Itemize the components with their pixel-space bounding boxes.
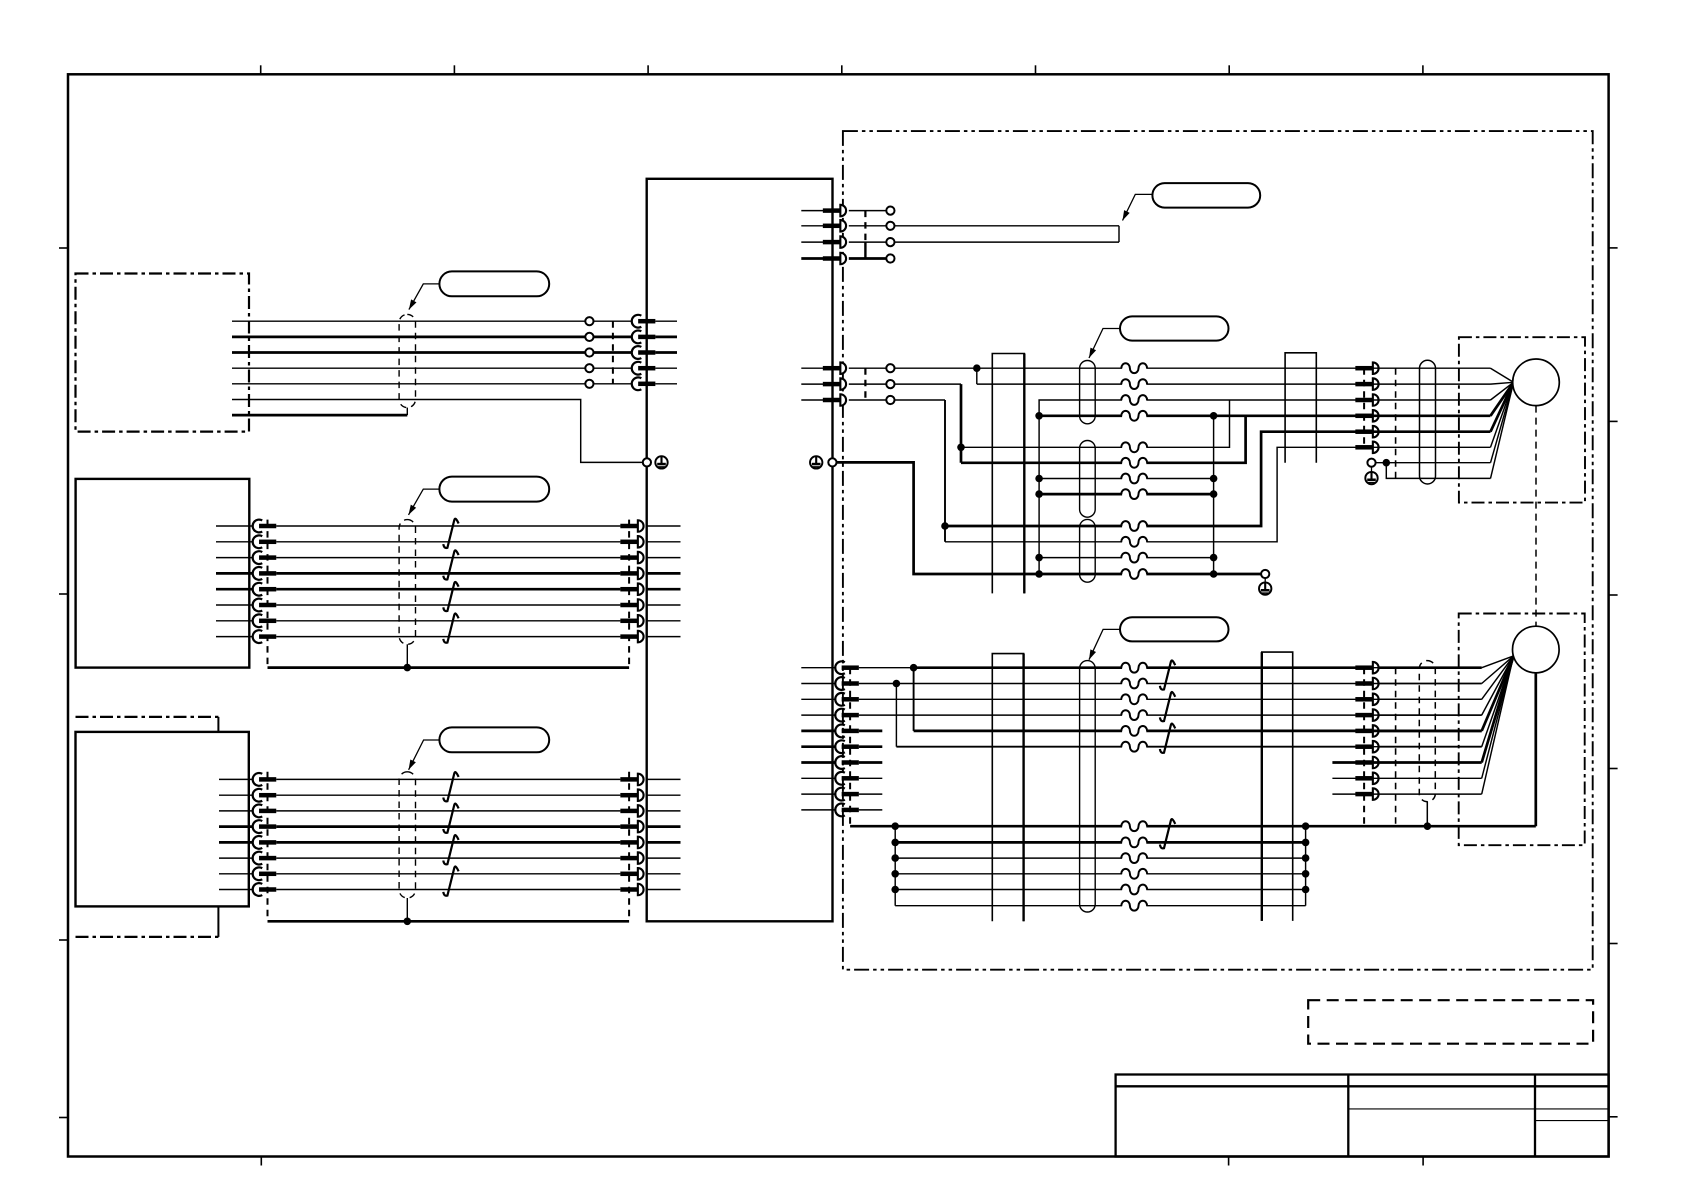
band2 stub wire 10: [859, 809, 883, 811]
motor2 bank shield dashes: [1363, 668, 1365, 827]
band2 left pin 7 lead: [801, 761, 836, 764]
rung 557: [1039, 557, 1214, 559]
twisted pair tick: [1160, 724, 1175, 753]
twisted pair tick: [443, 582, 458, 611]
bundle cable shield oval: [399, 520, 415, 645]
middle group wire 2 connector pin: [823, 378, 846, 390]
bundle wire 5 connector left: [253, 583, 277, 596]
motor2 connector pin 2: [1355, 678, 1378, 690]
top group wire 2 terminal circle: [886, 222, 894, 230]
vertical drop x945: [941, 400, 949, 542]
feedthrough A2: [992, 654, 1023, 922]
ferrite choke: [1121, 710, 1147, 720]
bundle1 wire 4 terminal circle: [585, 364, 593, 372]
ferrite choke: [1121, 363, 1147, 373]
bundle wire 7 connector right: [620, 615, 643, 627]
cabinet enclosure box (dash-dot): [843, 131, 1593, 970]
motor1 connector pin 4: [1355, 410, 1378, 422]
bundle1 wire 4 connector pin: [632, 362, 656, 375]
bundle shield dashed line right: [628, 520, 630, 668]
ferrite choke: [1121, 521, 1147, 531]
band2 left pin 1 lead: [801, 667, 836, 669]
motor2 lead 8: [1373, 656, 1514, 778]
band2 left connector pin 1: [835, 661, 859, 674]
motor2 lead 4: [1373, 656, 1514, 715]
bundle wire 5 connector right: [620, 837, 643, 849]
bundle1 wire 3 terminal circle: [585, 348, 593, 356]
callout 5 leader arrow: [1089, 329, 1120, 359]
motor2 lead 9: [1373, 656, 1514, 794]
callout 3 leader arrow: [409, 740, 440, 770]
motor1 PE ground symbol: [1365, 467, 1377, 484]
band2 left pin 5 lead: [801, 730, 836, 733]
ferrite choke: [1121, 569, 1147, 579]
motor1 lead 7: [1491, 382, 1514, 462]
motor1 bank shield dashes: [1363, 368, 1365, 447]
ferrite choke: [1121, 869, 1147, 879]
bundle1 wire 1 terminal circle: [585, 317, 593, 325]
band2 wire6 run: [896, 746, 1481, 748]
bundle wire 2 connector right: [620, 536, 643, 548]
bundle1 wire 3: [232, 351, 677, 354]
motor2 connector pin 6: [1355, 741, 1378, 753]
motor2 connector pin 3: [1355, 694, 1378, 706]
bundle1 wire 5 connector pin: [632, 377, 656, 390]
bundle shield dashed line left: [267, 772, 269, 922]
band2 rung 842 heavy: [895, 841, 1305, 844]
middle group dashed link: [864, 368, 866, 400]
band2 wire1 drop: [913, 668, 915, 731]
ferrite choke: [1121, 537, 1147, 547]
twisted pair tick: [443, 772, 458, 801]
motor2 connector pin 8: [1355, 773, 1378, 785]
bundle wire 3 connector right: [620, 552, 643, 564]
bundle shield drain stub: [404, 898, 412, 925]
band2 wire2 drop: [895, 684, 897, 747]
motor2 bank shield dashes outer: [1395, 668, 1397, 827]
bundle wire 1 connector left: [253, 520, 277, 533]
motor2 pin 8 stub: [1332, 777, 1355, 779]
top group wire 2: [801, 225, 886, 227]
bundle wire 4 connector left: [253, 567, 277, 580]
bundle1 wire 2 connector pin: [632, 331, 656, 344]
wire L1 phase run: [895, 364, 1356, 372]
callout balloon 4: [1152, 183, 1260, 208]
bundle1 wire 6 (to PE): [232, 400, 643, 463]
twisted pair tick: [1160, 819, 1175, 848]
motor1 lead 8: [1491, 382, 1514, 478]
vertical drop x961 (heavy): [957, 384, 965, 463]
bundle wire 7: [216, 620, 681, 622]
top group wire 3 terminal circle: [886, 238, 894, 246]
bundle1 wire 1 connector pin: [632, 315, 656, 328]
motor1 PE wire: [1376, 459, 1491, 467]
motor2 connector pin 9: [1355, 788, 1378, 800]
twisted pair tick: [443, 835, 458, 864]
ferrite choke: [1121, 726, 1147, 736]
motor1 lead 4: [1373, 382, 1514, 416]
band2 rung 858: [895, 857, 1305, 859]
wire L4p staircase: [961, 400, 1230, 447]
bundle wire 8: [216, 636, 681, 638]
motor2 connector pin 1: [1355, 662, 1378, 674]
twisted pair tick: [1160, 692, 1175, 721]
top group cable end link: [1118, 226, 1120, 242]
callout 1 leader arrow: [409, 284, 440, 310]
PE line end circle: [1261, 570, 1269, 578]
motor2 connector pin 7: [1355, 757, 1378, 769]
bundle wire 4 connector right: [620, 821, 643, 833]
callout balloon 1: [439, 271, 549, 296]
bundle wire 5: [216, 588, 681, 591]
motor1 bank shield dashes outer: [1395, 368, 1397, 478]
bundle wire 6: [216, 604, 681, 606]
wire L1-L2 link: [976, 368, 978, 384]
bundle1 PE terminal circle: [643, 458, 651, 466]
central terminal block: [647, 179, 833, 922]
motor1 connector pin 1: [1355, 362, 1378, 374]
bundle wire 7 connector left: [253, 867, 277, 880]
bus vertical Vb: [1210, 416, 1218, 578]
ferrite choke: [1121, 663, 1147, 673]
callout 2 leader arrow: [409, 489, 440, 515]
block right PE ground symbol: [810, 456, 822, 468]
middle group wire 2 terminal circle: [886, 380, 894, 388]
bundle wire 8 connector left: [253, 883, 277, 896]
motor1 PE drop wire: [1386, 463, 1490, 479]
band2 left connector pin 10: [835, 804, 859, 817]
callout balloon 3: [439, 727, 549, 752]
motor2 lead 1: [1373, 656, 1514, 668]
ferrite choke: [1121, 838, 1147, 848]
motor2 lead 5: [1373, 656, 1514, 731]
band2 rung bottom: [895, 905, 1305, 907]
band2 wire5 run: [914, 730, 1482, 733]
band2 left pin 10 lead: [801, 809, 836, 811]
top group wire 1 terminal circle: [886, 207, 894, 215]
wire L5p staircase to w5: [945, 432, 1356, 526]
bundle wire 2: [219, 794, 681, 796]
wire L6 staircase to w6: [945, 447, 1356, 542]
middle group wire 1 terminal circle: [886, 364, 894, 372]
band2 left connector pin 6: [835, 740, 859, 753]
bundle wire 6: [219, 857, 681, 859]
bundle1 shield drain wire 7: [232, 408, 407, 416]
motor2 connector pin 4: [1355, 709, 1378, 721]
source unit box 2: [76, 479, 250, 668]
bundle wire 1 connector left: [253, 773, 277, 786]
motor M2 box (dash-dot): [1459, 614, 1585, 846]
band2 wire3 run: [859, 698, 1482, 700]
callout balloon 5: [1120, 316, 1229, 340]
bundle wire 5: [219, 841, 681, 844]
twisted pair tick: [443, 867, 458, 896]
top group wire 1 connector pin: [823, 205, 846, 217]
motor1 PE circle: [1367, 459, 1375, 467]
bundle wire 4: [216, 572, 681, 575]
ferrite choke: [1121, 901, 1147, 911]
twisted pair tick: [443, 614, 458, 643]
block right PE terminal circle: [828, 458, 836, 466]
bundle1 PE ground symbol: [655, 456, 667, 468]
bundle wire 6 connector right: [620, 852, 643, 864]
PE line ground symbol: [1259, 578, 1271, 595]
wire L5 heavy staircase: [961, 416, 1246, 463]
motor1 lead 1: [1373, 368, 1514, 382]
ferrite choke: [1121, 885, 1147, 895]
bundle wire 8 connector right: [620, 884, 643, 896]
ferrite choke: [1121, 742, 1147, 752]
band2 left shield dashes: [849, 668, 851, 827]
ferrite choke: [1121, 694, 1147, 704]
bundle cable shield oval: [399, 772, 415, 898]
wire L4 heavy run: [1035, 412, 1355, 420]
feedthrough B2: [1262, 652, 1293, 921]
middle group wire 3: [801, 399, 886, 401]
source box 3 dash-dot extension top: [76, 717, 219, 732]
bundle1 cable shield oval: [399, 314, 415, 407]
band2 stub wire 9: [859, 793, 883, 795]
motor1 lead 6: [1373, 382, 1514, 447]
wire L3b run: [1039, 400, 1355, 416]
bundle wire 2 connector right: [620, 789, 643, 801]
bundle wire 7 connector right: [620, 868, 643, 880]
bundle wire 4: [219, 825, 681, 828]
feedthrough B1: [1285, 353, 1316, 463]
band2 rung 889: [895, 889, 1305, 891]
bundle1 wire 2: [232, 336, 677, 339]
bundle wire 2 connector left: [253, 535, 277, 548]
top group wire 3: [801, 241, 886, 243]
bundle wire 2 connector left: [253, 789, 277, 802]
bundle wire 8 connector left: [253, 630, 277, 643]
band2 rung 873: [895, 873, 1305, 875]
bundle1 wire 3 connector pin: [632, 346, 656, 359]
bundle1 dashed shield link: [612, 321, 614, 384]
motor M1 circle: [1513, 359, 1560, 406]
motor M1 box (dash-dot): [1459, 337, 1585, 502]
band2 wire4 run: [859, 714, 1482, 716]
top group wire 4: [801, 257, 886, 260]
bundle shield bus: [268, 920, 630, 923]
motor1 connector pin 5: [1355, 426, 1378, 438]
source unit box 1 (dash-dot): [76, 274, 250, 432]
band2 left connector pin 9: [835, 788, 859, 801]
callout 4 leader arrow: [1123, 194, 1153, 220]
bundle shield drain stub: [404, 644, 412, 671]
band2 left connector pin 4: [835, 709, 859, 722]
ferrite choke: [1121, 474, 1147, 484]
band2 left connector pin 5: [835, 725, 859, 738]
motor2 boot shield stub: [1426, 802, 1428, 827]
bus vertical Va: [1035, 416, 1043, 578]
top group dashed link: [864, 211, 866, 259]
bundle wire 1: [219, 778, 681, 780]
bundle wire 3 connector left: [253, 805, 277, 818]
ferrite choke: [1121, 853, 1147, 863]
notes box (dashed): [1308, 1000, 1593, 1043]
ferrite choke: [1121, 395, 1147, 405]
wire L2 run: [977, 383, 1356, 385]
bundle wire 8 connector right: [620, 631, 643, 643]
bundle wire 3 connector right: [620, 805, 643, 817]
bundle wire 7 connector left: [253, 614, 277, 627]
motor1 connector pin 3: [1355, 394, 1378, 406]
motor1 lead 5: [1373, 382, 1514, 431]
motor M2 circle: [1513, 626, 1560, 673]
bundle wire 1 connector right: [620, 520, 643, 532]
motor2 boot shield oval (dashed): [1419, 661, 1435, 802]
band2 stub wire 5: [859, 730, 883, 733]
motor link dashed: [1535, 406, 1537, 626]
motor2 lead 3: [1373, 656, 1514, 699]
motor2 pin 9 stub: [1332, 793, 1355, 795]
bundle1 wire 5 terminal circle: [585, 380, 593, 388]
band2 left pin 2 lead: [801, 683, 836, 685]
ferrite choke: [1121, 553, 1147, 563]
bundle wire 4 connector left: [253, 820, 277, 833]
band1 shield oval A: [1080, 361, 1096, 424]
middle group wire 1: [801, 367, 886, 369]
motor2 lead 6: [1373, 656, 1514, 747]
motor2 pin 7 stub: [1332, 761, 1355, 764]
bundle wire 6 connector left: [253, 599, 277, 612]
motor1 lead 3: [1373, 382, 1514, 400]
bundle1 wire 5: [232, 383, 677, 385]
top group wire 4 terminal circle: [886, 254, 894, 262]
callout 6 leader arrow: [1089, 629, 1120, 659]
motor2 lead 2: [1373, 656, 1514, 684]
bundle wire 4 connector right: [620, 568, 643, 580]
middle group wire 3 terminal circle: [886, 396, 894, 404]
bundle wire 2: [216, 541, 681, 543]
source unit box 3: [76, 732, 249, 907]
band2 cable shield oval: [1080, 661, 1096, 912]
top group wire 3 connector pin: [823, 236, 846, 248]
top group wire 2 run: [895, 225, 1119, 227]
bundle1 wire 1: [232, 320, 677, 322]
bundle shield bus: [268, 666, 630, 669]
band2 left connector pin 2: [835, 677, 859, 690]
wire L3 from circle: [895, 399, 945, 401]
middle group wire 3 connector pin: [823, 394, 846, 406]
callout balloon 6: [1120, 617, 1229, 641]
bundle shield dashed line right: [628, 772, 630, 922]
band2 shield bus heavy: [850, 822, 1536, 830]
top group wire 4 connector pin: [823, 253, 846, 265]
band2 stub wire 8: [859, 777, 883, 779]
band2 left connector pin 7: [835, 756, 859, 769]
band2 wire1: [859, 664, 1482, 672]
bundle wire 1 connector right: [620, 774, 643, 786]
bundle wire 6 connector left: [253, 852, 277, 865]
band2 left connector pin 3: [835, 693, 859, 706]
PE line from block: [837, 462, 1261, 574]
bundle wire 5 connector left: [253, 836, 277, 849]
top group wire 2 connector pin: [823, 220, 846, 232]
twisted pair tick: [443, 550, 458, 579]
wire L2 from circle: [895, 383, 961, 385]
ferrite choke: [1121, 458, 1147, 468]
ferrite choke: [1121, 489, 1147, 499]
band2 left pin 4 lead: [801, 714, 836, 716]
bundle wire 3: [219, 810, 681, 812]
band2 left pin 8 lead: [801, 777, 836, 779]
bundle wire 8: [219, 889, 681, 891]
band2 left pin 9 lead: [801, 793, 836, 795]
motor2 lead 7: [1373, 656, 1514, 763]
band2 left pin 3 lead: [801, 698, 836, 700]
rung 478: [1039, 478, 1214, 480]
band2 left pin 6 lead: [801, 745, 836, 748]
middle group wire 2: [801, 383, 886, 385]
band2 ladder V2: [1302, 826, 1310, 906]
motor2 connector pin 5: [1355, 725, 1378, 737]
band2 stub wire 6: [859, 745, 883, 748]
bundle wire 7: [219, 873, 681, 875]
top group wire 3 run: [895, 241, 1119, 243]
bundle wire 5 connector right: [620, 583, 643, 595]
motor1 lead 2: [1373, 382, 1514, 384]
ferrite choke: [1121, 442, 1147, 452]
band1 shield oval C: [1080, 519, 1096, 582]
band2 left connector pin 8: [835, 772, 859, 785]
twisted pair tick: [443, 519, 458, 548]
motor2 shield riser heavy: [1534, 673, 1537, 826]
motor1 connector pin 2: [1355, 378, 1378, 390]
bundle wire 3 connector left: [253, 551, 277, 564]
motor1 connector pin 6: [1355, 442, 1378, 454]
twisted pair tick: [1160, 660, 1175, 689]
bundle1 wire 2 terminal circle: [585, 333, 593, 341]
ferrite choke: [1121, 679, 1147, 689]
bundle1 wire 4: [232, 367, 677, 369]
bundle wire 6 connector right: [620, 599, 643, 611]
title block: [1116, 1075, 1609, 1157]
motor1 boot shield oval: [1420, 360, 1436, 484]
band2 ladder V1: [891, 826, 899, 906]
bundle shield dashed line left: [267, 520, 269, 668]
ferrite choke: [1121, 411, 1147, 421]
ferrite choke: [1121, 379, 1147, 389]
feedthrough A1: [992, 354, 1024, 594]
ferrite choke: [1121, 821, 1147, 831]
rung 494 heavy: [1039, 493, 1214, 496]
top group wire 1: [801, 210, 886, 212]
band1 shield oval B: [1080, 441, 1096, 518]
callout balloon 2: [439, 477, 549, 502]
source box 3 dash-dot extension bottom: [76, 906, 219, 937]
band2 stub wire 7: [859, 761, 883, 764]
band2 wire2: [859, 680, 1482, 688]
bundle wire 3: [216, 557, 681, 559]
bundle wire 1: [216, 525, 681, 527]
middle group wire 1 connector pin: [823, 362, 846, 374]
twisted pair tick: [443, 804, 458, 833]
